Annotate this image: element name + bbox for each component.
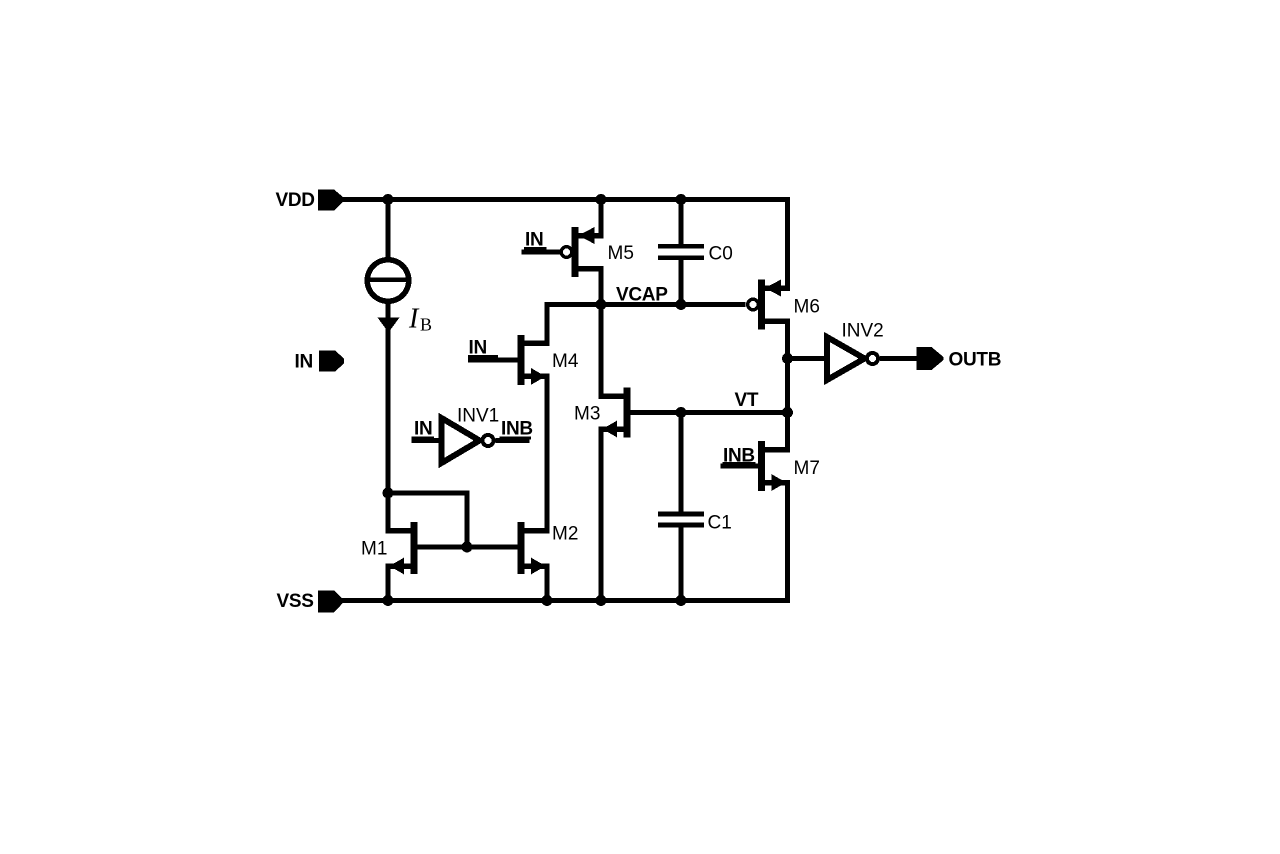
svg-text:M1: M1 [361, 539, 387, 560]
pin OUTB [917, 347, 944, 370]
pin IN [319, 351, 344, 372]
junction M6 drain/INV2 input [782, 353, 793, 364]
pin VSS [318, 590, 343, 612]
svg-text:VDD: VDD [276, 190, 315, 211]
junction VDD/M5 source [596, 194, 607, 205]
junction VCAP/M5 drain [596, 299, 607, 310]
svg-text:B: B [420, 315, 432, 335]
wire C0 to VCAP vertical [679, 260, 684, 307]
junction current-source/M1 gate loop [383, 488, 394, 499]
svg-text:INV2: INV2 [842, 321, 884, 342]
wire INV2 output to OUTB pin [880, 356, 917, 361]
svg-text:M4: M4 [552, 351, 579, 372]
wire M6 drain to M7 drain vertical [785, 319, 790, 453]
capacitor C0 [658, 244, 704, 260]
transistor M4 (NMOS) [468, 335, 550, 385]
wire VSS rail [342, 598, 790, 603]
wire M5 drain to VCAP vertical [599, 266, 604, 307]
svg-text:C0: C0 [709, 244, 733, 265]
junction VSS/M2 source [542, 595, 553, 606]
transistor M2 (NMOS) [518, 522, 550, 574]
wire M3 source to VSS vertical [599, 429, 604, 603]
svg-text:INV1: INV1 [457, 406, 499, 427]
junction M1-M2 gate net [462, 542, 473, 553]
transistor M6 (PMOS) [748, 280, 790, 330]
transistor M7 (NMOS) [721, 441, 791, 491]
transistor M1 (NMOS mirrored, diode connected) [386, 522, 418, 574]
inverter INV2 [827, 337, 878, 380]
wire current source to M1 drain vertical [386, 304, 391, 533]
transistor M5 (PMOS) [522, 227, 604, 277]
svg-text:M5: M5 [608, 243, 634, 264]
junction VDD/current-source [383, 194, 394, 205]
wire M4 source to M2 drain vertical [545, 374, 550, 533]
wire VDD rail [343, 197, 790, 202]
wire VDD to current source vertical [386, 197, 391, 257]
svg-text:M6: M6 [794, 297, 820, 318]
svg-text:OUTB: OUTB [949, 350, 1002, 371]
svg-text:M7: M7 [794, 458, 820, 479]
svg-text:VT: VT [735, 390, 759, 411]
junction VSS/C1 [676, 595, 687, 606]
wire VT to C1 vertical [679, 410, 684, 512]
wire M4 drain to VCAP vertical [545, 302, 550, 344]
svg-text:C1: C1 [708, 513, 732, 534]
transistor M3 (NMOS mirrored) [599, 388, 631, 438]
junction VDD/C0 [676, 194, 687, 205]
wire VCAP to M3 drain vertical [599, 302, 604, 396]
wire M7 source to VSS vertical [785, 480, 790, 603]
wire M2 source to VSS vertical [545, 564, 550, 604]
junction VT/C1 [676, 407, 687, 418]
wire M1-M2 gate net [418, 545, 518, 550]
node VCAP horizontal wire [545, 302, 746, 307]
svg-text:M3: M3 [574, 404, 600, 425]
inverter INV1 [412, 418, 530, 463]
svg-text:I: I [408, 304, 420, 335]
junction VSS/M1 source [383, 595, 394, 606]
pin VDD [318, 190, 343, 211]
wire OUTB node to INV2 input [790, 356, 824, 361]
node VT horizontal wire [631, 410, 791, 415]
wire VDD to C0 vertical [679, 197, 684, 245]
wire VDD to M5 source vertical [599, 197, 604, 239]
svg-text:M2: M2 [552, 524, 578, 545]
wire right rail vertical (VDD to M6 source) [785, 197, 790, 291]
wire M1 diode loop vertical [465, 491, 470, 550]
svg-text:VSS: VSS [277, 591, 314, 612]
capacitor C1 [658, 512, 704, 528]
svg-text:VCAP: VCAP [616, 285, 668, 306]
wire C1 to VSS vertical [679, 528, 684, 604]
svg-text:IN: IN [295, 352, 313, 373]
junction VSS/M3 source [596, 595, 607, 606]
junction VCAP/C0 [676, 299, 687, 310]
wire M1 source to VSS vertical [386, 564, 391, 604]
current source IB [367, 260, 409, 302]
junction VT/M7 drain [782, 407, 793, 418]
wire M1 diode loop horizontal [386, 491, 470, 496]
